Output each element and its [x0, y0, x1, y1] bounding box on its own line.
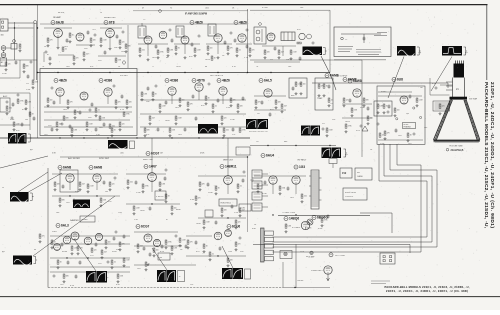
- diamond test point: [158, 9, 162, 13]
- svg-text:470K: 470K: [262, 193, 267, 195]
- svg-text:.047: .047: [59, 124, 62, 126]
- svg-text:.047: .047: [281, 52, 284, 54]
- svg-text:6U8: 6U8: [397, 78, 403, 82]
- tube label 6T8: [104, 21, 115, 25]
- tube label 6CG7: [136, 225, 150, 229]
- waveform W3 photo: [442, 46, 462, 56]
- svg-text:2.2M: 2.2M: [178, 118, 182, 120]
- svg-text:14N7: 14N7: [149, 165, 157, 169]
- svg-text:DAMPER: DAMPER: [70, 219, 79, 222]
- svg-text:MIXER OSC: MIXER OSC: [104, 17, 116, 19]
- pointer line from W1: [321, 56, 336, 90]
- tube envelope V25: [292, 176, 300, 184]
- svg-text:CAGE: CAGE: [357, 175, 363, 178]
- svg-text:1G3: 1G3: [299, 165, 305, 169]
- left edge box: [0, 98, 10, 112]
- waveform W9 photo: [301, 126, 320, 136]
- tube label 14BR11: [220, 165, 237, 169]
- svg-text:33: 33: [32, 114, 34, 116]
- note text below box: [334, 59, 386, 61]
- on-off wire: [295, 244, 297, 288]
- note wire: [341, 33, 381, 35]
- svg-text:.01: .01: [65, 49, 67, 51]
- svg-text:6AN8: 6AN8: [94, 166, 102, 170]
- svg-text:470: 470: [238, 244, 241, 246]
- tube label 6U8: [392, 78, 403, 82]
- CRT left wiring: [440, 84, 453, 86]
- svg-text:.001: .001: [9, 108, 12, 110]
- svg-text:33: 33: [178, 48, 180, 50]
- svg-text:.01: .01: [239, 50, 241, 52]
- svg-text:4BZ6: 4BZ6: [222, 79, 230, 83]
- svg-text:.001: .001: [112, 126, 115, 128]
- svg-text:470: 470: [252, 50, 255, 52]
- svg-text:6AN8: 6AN8: [63, 166, 71, 170]
- interlock plug: [280, 251, 292, 259]
- tube envelope V22: [148, 173, 157, 182]
- svg-text:RF AMP: RF AMP: [53, 16, 61, 19]
- svg-text:100: 100: [156, 250, 159, 252]
- tube envelope V17: [353, 89, 361, 97]
- svg-text:.01: .01: [98, 110, 100, 112]
- tube envelope V16: [264, 89, 272, 97]
- tube label 4CB6: [99, 79, 112, 83]
- ion trap band: [450, 97, 468, 100]
- svg-text:33: 33: [114, 130, 116, 132]
- pointer from W11: [29, 173, 63, 192]
- svg-text:4.5 MC: 4.5 MC: [262, 7, 269, 9]
- tube label 4BZ6: [54, 79, 67, 83]
- shielded lead to tuner: [33, 23, 35, 80]
- svg-text:14BQ6: 14BQ6: [289, 217, 299, 221]
- waveform W16 photo: [86, 271, 107, 283]
- svg-text:HORIZ HOLD: HORIZ HOLD: [221, 203, 232, 205]
- test point jack J1: [1, 46, 6, 51]
- svg-text:33: 33: [386, 106, 388, 108]
- svg-text:ION TRAP: ION TRAP: [469, 98, 478, 101]
- tube label 6AL5: [259, 79, 272, 83]
- svg-text:470: 470: [233, 100, 236, 102]
- svg-text:120: 120: [122, 124, 125, 126]
- svg-text:4.7K: 4.7K: [120, 109, 125, 111]
- svg-text:21DF1, -U, 24DC1, -U, 24DD1, -: 21DF1, -U, 24DC1, -U, 24DD1, -U, 24DF1, …: [489, 82, 495, 228]
- CRT funnel left wall: [434, 100, 451, 140]
- tube envelope V19: [66, 174, 74, 182]
- svg-text:100: 100: [50, 100, 53, 102]
- svg-text:T2: T2: [170, 8, 172, 10]
- tube label 4BZ6: [217, 79, 230, 83]
- AC power line: [253, 243, 410, 245]
- svg-text:33: 33: [155, 94, 157, 96]
- svg-text:120: 120: [190, 284, 193, 286]
- waveform W14 photo: [222, 268, 243, 279]
- svg-text:13: 13: [100, 12, 102, 14]
- svg-text:.01: .01: [212, 254, 214, 256]
- svg-text:2.2M: 2.2M: [329, 130, 333, 132]
- junction dots and value labels texture: [2, 7, 427, 288]
- svg-text:p-p: p-p: [30, 149, 33, 151]
- power cluster extra parts: [77, 246, 79, 250]
- svg-text:DET VIDEO IF: DET VIDEO IF: [210, 75, 224, 77]
- tube label 6BG6G: [312, 216, 328, 220]
- tube label 1G3: [294, 165, 305, 169]
- sync section enclosure: [377, 86, 425, 144]
- svg-text:2.2M: 2.2M: [136, 192, 141, 194]
- deflection yoke connector: [261, 228, 274, 262]
- waveform W8 photo: [246, 119, 268, 129]
- pointer from W16: [74, 239, 96, 271]
- IF coil T3: [176, 26, 184, 37]
- yoke wiring loop 2: [273, 144, 433, 242]
- svg-text:VID OUTPUT: VID OUTPUT: [336, 76, 348, 78]
- svg-text:1.5M: 1.5M: [16, 124, 20, 126]
- IF box sub-bus: [44, 126, 133, 128]
- waveform W11 photo: [10, 192, 29, 202]
- svg-text:300: 300: [1, 35, 4, 37]
- svg-text:25: 25: [2, 187, 4, 189]
- deflection yoke coil stack: [252, 170, 268, 211]
- svg-text:470K: 470K: [22, 109, 27, 111]
- svg-text:2.2M: 2.2M: [103, 40, 107, 42]
- svg-text:2.2M: 2.2M: [26, 89, 31, 91]
- diamond test point: [258, 22, 262, 26]
- tube envelope V33: [225, 230, 232, 237]
- tube envelope V2: [76, 33, 84, 41]
- tube label 4BZ6: [234, 21, 247, 25]
- tube envelope V23: [224, 176, 233, 185]
- sync takeoff box: [236, 147, 250, 155]
- section line row2 top: [60, 156, 248, 158]
- svg-text:100: 100: [397, 110, 400, 112]
- svg-text:.047: .047: [82, 184, 85, 186]
- svg-text:4.5 MEG: 4.5 MEG: [292, 227, 300, 229]
- svg-text:VID DET: VID DET: [120, 75, 129, 77]
- tube envelope V9: [267, 33, 275, 41]
- svg-text:PILOT LIGHT: PILOT LIGHT: [335, 255, 345, 257]
- svg-text:.01: .01: [114, 262, 116, 264]
- svg-text:T7: T7: [152, 66, 154, 68]
- video chain sub-bus: [140, 126, 246, 128]
- waveform W6 photo: [108, 140, 128, 149]
- svg-text:470: 470: [442, 106, 445, 108]
- sound section top wire: [250, 59, 362, 61]
- bottom enclosure dashes: [48, 287, 283, 289]
- svg-text:1M: 1M: [406, 113, 409, 115]
- AGC line components: [6, 101, 8, 103]
- bottom page rule: [0, 296, 500, 298]
- HV cage boxes: [340, 168, 352, 178]
- tube envelope V3: [106, 29, 115, 38]
- svg-text:.01: .01: [331, 100, 333, 102]
- B+ feed line: [360, 213, 392, 233]
- svg-text:.001: .001: [142, 50, 145, 52]
- wire AGC line: [133, 10, 248, 12]
- svg-text:.001: .001: [226, 130, 229, 132]
- bracket: [28, 134, 30, 142]
- svg-text:.001: .001: [304, 196, 307, 198]
- svg-text:IF AMP 2ND SLMPW: IF AMP 2ND SLMPW: [185, 13, 208, 16]
- svg-text:47: 47: [142, 8, 144, 10]
- svg-text:120K: 120K: [208, 192, 213, 194]
- svg-text:1.5M: 1.5M: [419, 100, 423, 102]
- svg-text:117V: 117V: [300, 251, 305, 253]
- section line row2 right: [247, 157, 249, 232]
- svg-text:.01: .01: [382, 135, 384, 137]
- tube envelope V34: [324, 266, 332, 274]
- right border rule: [486, 5, 488, 80]
- delta symbol: [362, 126, 368, 131]
- height control box: [219, 199, 237, 206]
- tube envelope V30: [144, 234, 152, 242]
- discriminator box: [289, 78, 307, 98]
- svg-text:88-108: 88-108: [58, 12, 64, 14]
- tube envelope V31: [153, 239, 160, 246]
- tube label 6CU6: [227, 225, 240, 229]
- svg-text:p-p: p-p: [345, 154, 348, 156]
- bus line under IF strip: [38, 72, 331, 74]
- convergence drop wire: [409, 244, 411, 253]
- svg-text:33: 33: [168, 196, 170, 198]
- svg-text:2.2M: 2.2M: [293, 52, 297, 54]
- tube envelope V14: [195, 83, 203, 91]
- svg-text:100: 100: [182, 100, 185, 102]
- svg-text:.0022: .0022: [345, 121, 351, 123]
- svg-text:HEIGHT: HEIGHT: [82, 219, 88, 221]
- pointer diagonal 2: [18, 172, 48, 192]
- svg-text:HORIZ: HORIZ: [404, 124, 409, 126]
- svg-text:4CB6: 4CB6: [170, 79, 178, 83]
- peaking coil photo W7 photo: [198, 124, 218, 134]
- tube envelope V28: [84, 237, 92, 245]
- CRT socket pins: [455, 61, 457, 64]
- width control box: [343, 188, 367, 200]
- fine tuning shaft line: [127, 25, 129, 68]
- sound IF transformer T5: [254, 27, 266, 44]
- svg-text:TO DEFL YOKE: TO DEFL YOKE: [282, 212, 296, 214]
- height control box: [80, 216, 95, 222]
- svg-text:470: 470: [76, 58, 79, 60]
- tube label 6AM8: [325, 74, 339, 78]
- tube label 6AJ8: [51, 21, 64, 25]
- tube envelope V21: [71, 232, 79, 240]
- yoke wiring loop 1: [273, 144, 428, 237]
- small box: [205, 210, 213, 217]
- line to pilot: [283, 287, 330, 289]
- svg-text:T8: T8: [256, 66, 258, 68]
- svg-text:PACKARD-BELL MODELS 21SC1, -U,: PACKARD-BELL MODELS 21SC1, -U, 21SC2, -U…: [483, 82, 489, 229]
- pointer line from W3: [431, 57, 452, 92]
- svg-text:.047: .047: [242, 210, 245, 212]
- pointer from W13: [152, 248, 167, 270]
- svg-text:2.2M: 2.2M: [89, 124, 93, 126]
- tube label 4CB6: [165, 79, 178, 83]
- svg-text:4CB6: 4CB6: [104, 79, 112, 83]
- trap box: [315, 78, 333, 110]
- waveform W5 photo: [8, 133, 27, 144]
- tube envelope V24: [269, 176, 277, 184]
- svg-text:120: 120: [94, 250, 97, 252]
- vertical bus left: [37, 5, 39, 73]
- svg-text:270K: 270K: [380, 143, 385, 145]
- svg-text:SYNC SEP: SYNC SEP: [99, 158, 110, 160]
- svg-text:.001: .001: [205, 8, 209, 10]
- svg-text:6AL5: 6AL5: [264, 79, 272, 83]
- svg-text:1M: 1M: [25, 119, 28, 121]
- svg-text:680K: 680K: [176, 209, 181, 211]
- svg-text:.047: .047: [44, 134, 48, 136]
- svg-text:4BZ6: 4BZ6: [59, 79, 67, 83]
- svg-text:120: 120: [122, 42, 125, 44]
- svg-text:6CU6: 6CU6: [232, 225, 240, 229]
- vertical wire: [247, 9, 249, 73]
- svg-text:8.2K: 8.2K: [160, 251, 165, 253]
- 1st IF transformer: [138, 26, 146, 38]
- wire row1 right: [378, 91, 412, 93]
- svg-text:3.3K: 3.3K: [190, 199, 195, 201]
- tube label 6AW8: [348, 79, 362, 83]
- svg-text:68: 68: [205, 66, 207, 68]
- svg-text:p-p: p-p: [465, 52, 468, 54]
- svg-text:4013 4010 T100 40.5 T.04: 4013 4010 T100 40.5 T.04: [249, 131, 268, 133]
- inner box: [60, 170, 78, 192]
- svg-text:1.5M: 1.5M: [197, 50, 201, 52]
- top border rule: [0, 4, 488, 6]
- tube label 6CG7: [146, 152, 160, 156]
- svg-text:470K: 470K: [318, 228, 323, 230]
- CRT screen: [434, 140, 480, 142]
- svg-text:.001: .001: [178, 134, 182, 136]
- focus pot: [307, 219, 313, 225]
- phase det box: [374, 101, 392, 116]
- svg-text:.005: .005: [120, 153, 124, 155]
- svg-text:.005: .005: [66, 66, 70, 68]
- horiz phasing label box: [403, 123, 416, 129]
- IF coil T4: [208, 24, 216, 36]
- svg-text:6AU4: 6AU4: [266, 154, 274, 158]
- vertical wire sound to bus: [329, 10, 331, 72]
- fuse symbol: [310, 251, 313, 254]
- svg-text:2.7K: 2.7K: [244, 57, 249, 59]
- svg-text:.047: .047: [408, 143, 412, 145]
- svg-text:470K: 470K: [10, 119, 15, 121]
- wire x37 down: [37, 73, 39, 139]
- tube label 6AL3: [56, 224, 69, 228]
- svg-text:AGC KEYER: AGC KEYER: [68, 157, 80, 160]
- svg-text:HV RECT: HV RECT: [298, 160, 308, 162]
- svg-text:220K: 220K: [360, 107, 365, 109]
- svg-text:HORIZ DRIVE: HORIZ DRIVE: [345, 192, 357, 194]
- svg-text:1M: 1M: [420, 87, 423, 89]
- tube label 6AN8: [89, 166, 102, 170]
- tube envelope V15: [219, 87, 227, 95]
- waveform W2 photo: [397, 46, 416, 56]
- video output line to CRT: [312, 82, 448, 84]
- caption footnote fragment: [371, 280, 390, 282]
- wire: [14, 22, 16, 60]
- svg-text:21ALP4A,B: 21ALP4A,B: [451, 149, 464, 152]
- left edge row1 extras: [0, 59, 37, 61]
- svg-text:.0047: .0047: [140, 210, 146, 212]
- svg-text:.047: .047: [86, 54, 89, 56]
- tube envelope V1: [54, 29, 63, 38]
- tube envelope V18: [400, 96, 408, 104]
- test point jack J2: [1, 53, 6, 58]
- svg-text:470K: 470K: [75, 191, 80, 193]
- waveform W10 photo: [322, 148, 342, 159]
- left enclosure line: [47, 168, 49, 288]
- svg-text:470: 470: [118, 102, 121, 104]
- svg-text:POWER RECT: POWER RECT: [311, 270, 324, 272]
- section divider wire: [361, 60, 363, 157]
- tube label 6AN8: [58, 166, 71, 170]
- pointer to W15: [33, 196, 115, 256]
- bracket box W13: [178, 271, 185, 282]
- svg-text:PWR: PWR: [52, 231, 57, 233]
- tube envelope V29: [95, 233, 102, 240]
- svg-text:AGC: AGC: [3, 95, 8, 98]
- tube envelope V27: [54, 244, 61, 251]
- bracket box: [130, 141, 135, 149]
- svg-text:.047: .047: [152, 118, 155, 120]
- tube label 4DT6: [192, 79, 205, 83]
- flyback transformer core: [309, 170, 322, 209]
- production-change note box: [334, 27, 391, 57]
- svg-text:470K: 470K: [200, 153, 205, 155]
- tube label 4BZ6: [190, 21, 203, 25]
- tube label 6AU4: [261, 154, 274, 158]
- svg-text:100: 100: [303, 84, 306, 86]
- svg-text:VERT OSC: VERT OSC: [143, 159, 154, 161]
- svg-text:120: 120: [70, 134, 73, 136]
- tube envelope V4: [144, 36, 152, 44]
- svg-text:560: 560: [424, 127, 427, 129]
- yoke wiring loop 3: [273, 144, 438, 247]
- tube label 14BQ6: [284, 217, 299, 221]
- svg-text:1.2K: 1.2K: [234, 212, 239, 214]
- resistor: [19, 44, 21, 48]
- svg-text:6AM8: 6AM8: [348, 78, 357, 82]
- svg-text:1.5M: 1.5M: [162, 106, 166, 108]
- 4.5 MC coil: [281, 32, 295, 41]
- right enclosure: [282, 262, 284, 288]
- svg-text:120: 120: [8, 64, 11, 66]
- tube label 14N7: [144, 165, 157, 169]
- svg-text:6CG7: 6CG7: [151, 152, 160, 156]
- svg-text:120: 120: [238, 222, 241, 224]
- svg-text:6CG7: 6CG7: [141, 225, 150, 229]
- svg-text:.25: .25: [330, 103, 333, 105]
- AGC line extra: [11, 117, 13, 119]
- yoke wiring loop 4: [273, 144, 422, 252]
- svg-text:.047: .047: [104, 252, 107, 254]
- svg-text:14BR11: 14BR11: [225, 165, 237, 169]
- svg-text:33: 33: [54, 242, 56, 244]
- bus line row1: [0, 137, 250, 139]
- svg-text:6.3V: 6.3V: [432, 83, 437, 85]
- svg-text:PACKARD-BELL MODELS 21SC1, -U,: PACKARD-BELL MODELS 21SC1, -U, 21SC2, -U…: [385, 285, 470, 289]
- svg-text:.0039: .0039: [196, 223, 201, 225]
- svg-text:.01: .01: [240, 186, 242, 188]
- svg-text:120: 120: [224, 118, 227, 120]
- convergence socket: [380, 253, 395, 264]
- svg-text:350V: 350V: [112, 251, 117, 253]
- wire sound takeoff: [250, 9, 330, 11]
- tube envelope V5: [159, 31, 167, 39]
- svg-text:21DF1, -U, 24DC1, -U, 24DD1, -: 21DF1, -U, 24DC1, -U, 24DD1, -U, 24DF1, …: [386, 289, 468, 293]
- CRT base: [454, 64, 465, 78]
- wire antenna to tuner: [8, 22, 34, 24]
- svg-text:1.5M: 1.5M: [182, 240, 186, 242]
